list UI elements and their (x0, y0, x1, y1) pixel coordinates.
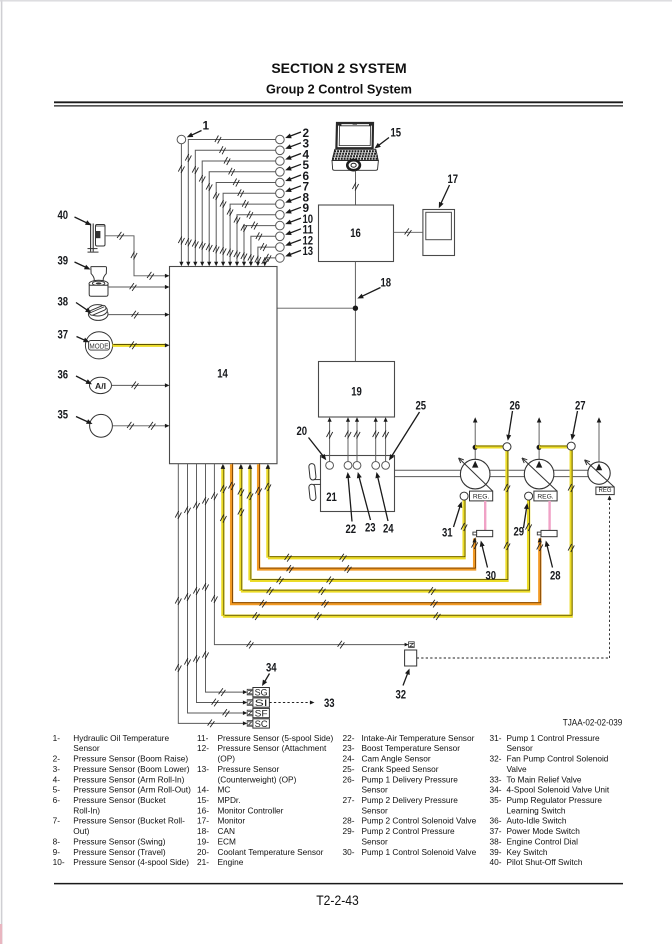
svg-text:MODE: MODE (89, 341, 108, 350)
svg-text:36: 36 (58, 368, 69, 382)
svg-text:A/I: A/I (95, 381, 106, 391)
svg-text:Pump 2 Control Solenoid Valve: Pump 2 Control Solenoid Valve (362, 816, 477, 826)
svg-text:25-: 25- (343, 764, 355, 774)
svg-text:26: 26 (510, 399, 521, 413)
svg-text:36-: 36- (490, 816, 502, 826)
svg-text:1: 1 (203, 119, 210, 133)
svg-text:25: 25 (416, 399, 427, 413)
svg-text:Pressure Sensor (Bucket Roll-: Pressure Sensor (Bucket Roll- (73, 816, 185, 826)
svg-text:35-: 35- (490, 795, 502, 805)
svg-text:22: 22 (346, 522, 357, 536)
svg-text:32-: 32- (490, 754, 502, 764)
svg-text:Sensor: Sensor (507, 743, 534, 753)
svg-text:8-: 8- (53, 836, 61, 846)
svg-text:Pressure Sensor (Boom Raise): Pressure Sensor (Boom Raise) (73, 754, 188, 764)
svg-text:Pump 1 Control Solenoid Valve: Pump 1 Control Solenoid Valve (362, 847, 477, 857)
svg-text:21: 21 (326, 490, 337, 504)
svg-text:Monitor Controller: Monitor Controller (218, 805, 284, 815)
svg-text:Sensor: Sensor (362, 836, 389, 846)
svg-text:13-: 13- (197, 764, 209, 774)
svg-text:SF: SF (255, 709, 268, 720)
svg-text:REG: REG (598, 488, 611, 494)
svg-text:28-: 28- (343, 816, 355, 826)
svg-text:REG.: REG. (537, 494, 553, 501)
svg-text:29-: 29- (343, 826, 355, 836)
svg-text:Key Switch: Key Switch (507, 847, 548, 857)
svg-text:SI: SI (255, 698, 268, 709)
svg-text:7-: 7- (53, 816, 61, 826)
svg-text:31: 31 (442, 526, 453, 540)
svg-text:20: 20 (297, 424, 308, 438)
svg-text:40: 40 (58, 208, 69, 222)
svg-text:Sensor: Sensor (362, 805, 389, 815)
svg-text:Valve: Valve (507, 764, 528, 774)
svg-text:39-: 39- (490, 847, 502, 857)
svg-text:TJAA-02-02-039: TJAA-02-02-039 (563, 717, 623, 728)
svg-text:4-Spool Solenoid Valve Unit: 4-Spool Solenoid Valve Unit (507, 785, 610, 795)
svg-text:Crank Speed Sensor: Crank Speed Sensor (362, 764, 439, 774)
svg-text:18: 18 (381, 276, 392, 290)
svg-text:33-: 33- (490, 774, 502, 784)
svg-text:Pressure Sensor (Boom Lower): Pressure Sensor (Boom Lower) (73, 764, 189, 774)
svg-text:39: 39 (58, 254, 69, 268)
svg-text:38: 38 (58, 295, 69, 309)
svg-text:Pressure Sensor: Pressure Sensor (218, 764, 280, 774)
svg-text:17: 17 (448, 172, 459, 186)
svg-text:Monitor: Monitor (218, 816, 246, 826)
svg-text:40-: 40- (490, 857, 502, 867)
svg-text:30: 30 (486, 569, 497, 583)
svg-text:Pressure Sensor (Arm Roll-In): Pressure Sensor (Arm Roll-In) (73, 774, 184, 784)
svg-text:SG: SG (255, 688, 268, 699)
svg-text:26-: 26- (343, 774, 355, 784)
svg-text:22-: 22- (343, 733, 355, 743)
svg-text:Roll-In): Roll-In) (73, 805, 100, 815)
svg-text:Sensor: Sensor (362, 785, 389, 795)
svg-text:12-: 12- (197, 743, 209, 753)
svg-text:3-: 3- (53, 764, 61, 774)
svg-text:11-: 11- (197, 733, 209, 743)
svg-text:Pressure Sensor (Bucket: Pressure Sensor (Bucket (73, 795, 166, 805)
svg-text:(Counterweight) (OP): (Counterweight) (OP) (218, 774, 297, 784)
svg-text:Auto-Idle Switch: Auto-Idle Switch (507, 816, 567, 826)
svg-text:Boost Temperature Sensor: Boost Temperature Sensor (362, 743, 461, 753)
svg-text:27-: 27- (343, 795, 355, 805)
svg-text:38-: 38- (490, 836, 502, 846)
svg-text:(OP): (OP) (218, 754, 236, 764)
svg-text:Cam Angle Sensor: Cam Angle Sensor (362, 754, 431, 764)
svg-text:37: 37 (58, 328, 69, 342)
svg-text:Pressure Sensor (Swing): Pressure Sensor (Swing) (73, 836, 165, 846)
svg-text:18-: 18- (197, 826, 209, 836)
svg-text:2-: 2- (53, 754, 61, 764)
svg-text:SECTION 2 SYSTEM: SECTION 2 SYSTEM (271, 60, 406, 76)
svg-text:Learning Switch: Learning Switch (507, 805, 566, 815)
svg-text:Group 2 Control System: Group 2 Control System (266, 82, 412, 96)
svg-text:REG.: REG. (473, 494, 489, 501)
svg-text:24: 24 (383, 522, 394, 536)
svg-text:28: 28 (550, 569, 561, 583)
svg-text:16-: 16- (197, 805, 209, 815)
svg-text:Pump 2 Delivery Pressure: Pump 2 Delivery Pressure (362, 795, 459, 805)
svg-text:10-: 10- (53, 857, 65, 867)
svg-text:32: 32 (396, 688, 407, 702)
svg-text:Coolant Temperature Sensor: Coolant Temperature Sensor (218, 847, 324, 857)
svg-text:23-: 23- (343, 743, 355, 753)
svg-text:34: 34 (266, 661, 277, 675)
svg-text:21-: 21- (197, 857, 209, 867)
svg-text:Out): Out) (73, 826, 89, 836)
svg-text:14: 14 (217, 367, 228, 381)
svg-text:Pressure Sensor (5-spool Side): Pressure Sensor (5-spool Side) (218, 733, 334, 743)
svg-text:1-: 1- (53, 733, 61, 743)
svg-text:13: 13 (303, 244, 314, 258)
svg-text:Fan Pump Control Solenoid: Fan Pump Control Solenoid (507, 754, 609, 764)
svg-text:Hydraulic Oil Temperature: Hydraulic Oil Temperature (73, 733, 169, 743)
svg-text:14-: 14- (197, 785, 209, 795)
svg-text:Pilot Shut-Off Switch: Pilot Shut-Off Switch (507, 857, 583, 867)
svg-text:9-: 9- (53, 847, 61, 857)
svg-text:27: 27 (575, 399, 586, 413)
svg-text:34-: 34- (490, 785, 502, 795)
svg-text:19: 19 (351, 385, 362, 399)
svg-text:T2-2-43: T2-2-43 (316, 893, 359, 909)
svg-text:ECM: ECM (218, 836, 237, 846)
svg-text:30-: 30- (343, 847, 355, 857)
svg-text:20-: 20- (197, 847, 209, 857)
svg-text:To Main Relief Valve: To Main Relief Valve (507, 774, 582, 784)
svg-text:33: 33 (324, 696, 335, 710)
svg-text:31-: 31- (490, 733, 502, 743)
svg-text:Sensor: Sensor (73, 743, 100, 753)
svg-text:Pump Regulator Pressure: Pump Regulator Pressure (507, 795, 603, 805)
svg-text:37-: 37- (490, 826, 502, 836)
svg-text:19-: 19- (197, 836, 209, 846)
svg-text:5-: 5- (53, 785, 61, 795)
svg-text:Pump 1 Control Pressure: Pump 1 Control Pressure (507, 733, 601, 743)
svg-text:Pressure Sensor (4-spool Side): Pressure Sensor (4-spool Side) (73, 857, 189, 867)
svg-text:Pressure Sensor (Arm Roll-Out): Pressure Sensor (Arm Roll-Out) (73, 785, 191, 795)
svg-text:23: 23 (365, 521, 376, 535)
svg-text:Engine Control Dial: Engine Control Dial (507, 836, 579, 846)
svg-text:35: 35 (58, 408, 69, 422)
svg-text:4-: 4- (53, 774, 61, 784)
svg-text:Engine: Engine (218, 857, 244, 867)
svg-text:SC: SC (255, 719, 268, 730)
svg-text:15-: 15- (197, 795, 209, 805)
svg-text:MPDr.: MPDr. (218, 795, 241, 805)
svg-text:Pump 1 Delivery Pressure: Pump 1 Delivery Pressure (362, 774, 459, 784)
svg-text:6-: 6- (53, 795, 61, 805)
svg-text:Pressure Sensor (Attachment: Pressure Sensor (Attachment (218, 743, 328, 753)
svg-text:Pressure Sensor (Travel): Pressure Sensor (Travel) (73, 847, 166, 857)
svg-text:MC: MC (218, 785, 231, 795)
svg-text:24-: 24- (343, 754, 355, 764)
svg-text:Power Mode Switch: Power Mode Switch (507, 826, 581, 836)
svg-text:Intake-Air Temperature Sensor: Intake-Air Temperature Sensor (362, 733, 475, 743)
svg-text:15: 15 (391, 126, 402, 140)
svg-text:29: 29 (514, 525, 525, 539)
svg-text:CAN: CAN (218, 826, 236, 836)
svg-text:16: 16 (350, 226, 361, 240)
svg-text:17-: 17- (197, 816, 209, 826)
svg-text:Pump 2 Control Pressure: Pump 2 Control Pressure (362, 826, 456, 836)
